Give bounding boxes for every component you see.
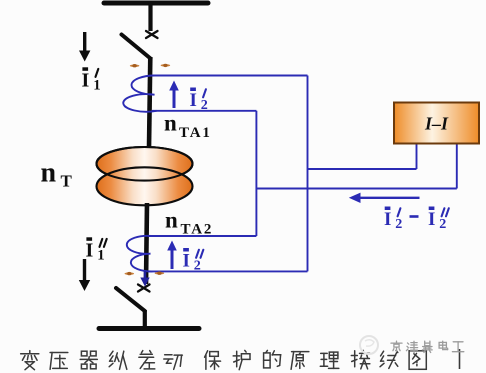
label I1-prime bbox=[82, 67, 101, 93]
arrow I1-prime current direction bbox=[79, 32, 90, 62]
arrow differential current direction bbox=[349, 193, 420, 203]
svg-text:TA2: TA2 bbox=[181, 222, 214, 238]
relay I-I differential element box bbox=[394, 103, 479, 144]
svg-text:I: I bbox=[428, 209, 435, 230]
svg-text:n: n bbox=[165, 208, 178, 233]
svg-text:1: 1 bbox=[97, 248, 104, 264]
wire CT2 secondary top lead bbox=[148, 235, 256, 237]
label nT bbox=[41, 158, 73, 191]
wire CT1 secondary bottom lead bbox=[152, 110, 256, 112]
caption cursor bar bbox=[459, 349, 461, 369]
svg-text:2: 2 bbox=[201, 97, 208, 113]
arrow I2-prime bbox=[169, 81, 179, 109]
svg-text:2: 2 bbox=[194, 258, 201, 274]
CT nTA1 secondary winding arcs bbox=[123, 75, 156, 111]
wire relay right lead horizontal bbox=[256, 188, 456, 190]
CT nTA1 polarity star right bbox=[161, 64, 171, 67]
svg-text:I: I bbox=[86, 240, 94, 262]
svg-text:n: n bbox=[41, 158, 57, 189]
svg-text:I: I bbox=[183, 251, 190, 272]
wire relay left lead horizontal bbox=[308, 168, 417, 170]
wire outer vertical (CT1 top to CT2 bottom) bbox=[307, 76, 309, 272]
label nTA2 bbox=[165, 208, 213, 238]
label I1-doubleprime bbox=[86, 237, 107, 263]
svg-text:T: T bbox=[61, 172, 73, 191]
svg-text:2: 2 bbox=[395, 216, 402, 232]
busbar bottom bbox=[99, 326, 199, 331]
CT nTA2 polarity star left bbox=[125, 272, 135, 275]
wire breaker QF2 to bottom busbar bbox=[143, 310, 147, 328]
wire CT2 secondary bottom lead bbox=[148, 270, 308, 272]
arrow I1-doubleprime current direction bbox=[79, 259, 90, 291]
wire from top busbar to breaker QF1 bbox=[148, 3, 152, 31]
svg-text:1: 1 bbox=[93, 78, 100, 94]
breaker QF1 contact cross bbox=[146, 31, 158, 38]
wire transformer to breaker QF2 bbox=[146, 203, 147, 284]
svg-text:I–I: I–I bbox=[424, 114, 449, 134]
label I2-prime bbox=[190, 88, 208, 114]
svg-text:I: I bbox=[82, 70, 90, 92]
wire relay left lead vertical bbox=[416, 144, 418, 169]
watermark text jing-jin-ji-dian-gong bbox=[391, 341, 464, 352]
svg-text:I: I bbox=[384, 209, 391, 230]
CT nTA2 polarity star right bbox=[155, 272, 165, 275]
wire inner vertical (CT1 bottom to CT2 top) bbox=[255, 111, 257, 236]
label I2-doubleprime bbox=[183, 248, 204, 274]
CT nTA1 polarity star left bbox=[130, 64, 140, 67]
busbar top bbox=[104, 1, 208, 6]
svg-text:I: I bbox=[190, 90, 197, 111]
svg-text:2: 2 bbox=[439, 216, 446, 232]
transformer nT winding ellipse bottom bbox=[97, 147, 193, 205]
breaker QF1 blade bbox=[122, 35, 151, 59]
svg-text:n: n bbox=[164, 110, 177, 135]
caption: transformer longitudinal differential protection wiring principle diagram bbox=[21, 350, 427, 369]
breaker QF2 blade bbox=[116, 288, 145, 311]
wire CT1 secondary top lead bbox=[152, 75, 308, 77]
label nTA1 bbox=[164, 110, 212, 141]
label I2prime minus I2doubleprime bbox=[384, 207, 449, 233]
transformer nT winding ellipse top bbox=[97, 147, 193, 181]
watermark logo bbox=[360, 336, 378, 354]
wire breaker QF1 to transformer bbox=[149, 57, 150, 148]
wire relay right lead vertical bbox=[456, 144, 458, 189]
svg-text:TA1: TA1 bbox=[179, 125, 212, 141]
breaker QF2 contact cross bbox=[138, 285, 150, 292]
arrow current into QF2 (blue arrowhead on line) bbox=[140, 271, 149, 287]
CT nTA2 secondary winding arcs bbox=[127, 236, 153, 272]
arrow I2-doubleprime bbox=[167, 241, 177, 270]
